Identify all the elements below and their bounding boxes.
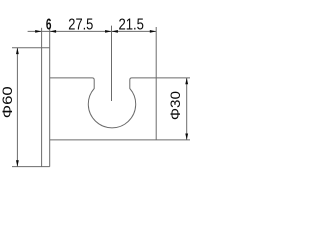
- wire slot centerline extension: [111, 26, 113, 101]
- arrow dim6 right: [50, 30, 56, 33]
- arrow phi30 down: [185, 134, 188, 140]
- wire extension line left of 6: [41, 28, 43, 48]
- svg-text:Φ30: Φ30: [167, 91, 183, 120]
- wire phi30 dimension line: [186, 78, 188, 140]
- svg-text:6: 6: [46, 17, 52, 34]
- wire body top edge left + slot left wall + circle arc: [50, 78, 190, 128]
- wire phi60 dimension line: [16, 48, 18, 167]
- wire bottom extension + plate bottom edge: [12, 166, 50, 168]
- wire body bottom edge + phi30 bottom extension: [50, 139, 190, 141]
- arrow dim27.5 right: [105, 30, 111, 33]
- arrow dim6 left: [35, 30, 41, 33]
- wire extension line right of 6: [49, 28, 51, 48]
- wire right extension + body right edge: [155, 27, 157, 140]
- wire top dimension line: [28, 30, 157, 32]
- wire plate right edge: [49, 48, 51, 167]
- arrow phi60 down: [16, 160, 19, 166]
- svg-text:Φ60: Φ60: [0, 86, 15, 118]
- svg-text:21.5: 21.5: [118, 17, 144, 34]
- arrow phi30 up: [185, 78, 188, 84]
- svg-text:27.5: 27.5: [68, 17, 93, 34]
- wire plate left edge: [41, 48, 43, 167]
- wire top extension + plate top edge: [12, 47, 50, 49]
- arrow dim21.5 right: [150, 30, 156, 33]
- arrow phi60 up: [16, 48, 19, 54]
- arrow dim21.5 left: [112, 30, 118, 33]
